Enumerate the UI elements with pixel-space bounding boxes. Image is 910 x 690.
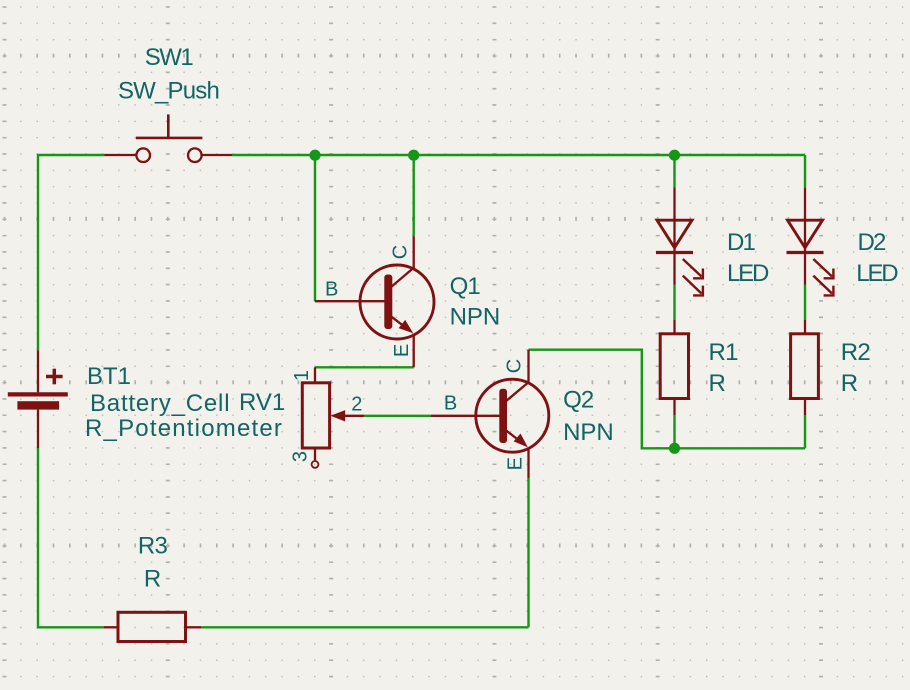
svg-text:BT1: BT1 bbox=[87, 363, 131, 390]
svg-text:SW_Push: SW_Push bbox=[118, 78, 219, 105]
svg-text:LED: LED bbox=[856, 260, 898, 287]
svg-text:E: E bbox=[391, 344, 413, 357]
svg-text:1: 1 bbox=[291, 370, 313, 381]
svg-text:NPN: NPN bbox=[450, 304, 501, 331]
svg-text:SW1: SW1 bbox=[145, 44, 194, 71]
svg-text:NPN: NPN bbox=[563, 419, 614, 446]
svg-text:Battery_Cell: Battery_Cell bbox=[90, 390, 230, 417]
svg-text:E: E bbox=[505, 457, 527, 470]
svg-text:D2: D2 bbox=[858, 229, 887, 256]
svg-text:3: 3 bbox=[290, 451, 312, 462]
svg-text:Q1: Q1 bbox=[450, 273, 481, 300]
svg-text:R3: R3 bbox=[138, 533, 168, 560]
svg-text:R_Potentiometer: R_Potentiometer bbox=[85, 415, 283, 442]
svg-text:R1: R1 bbox=[709, 339, 739, 366]
svg-text:B: B bbox=[325, 278, 338, 300]
svg-text:LED: LED bbox=[727, 260, 769, 287]
svg-text:D1: D1 bbox=[727, 229, 756, 256]
svg-text:C: C bbox=[390, 245, 412, 259]
svg-text:R2: R2 bbox=[841, 339, 871, 366]
svg-text:RV1: RV1 bbox=[239, 389, 285, 416]
svg-text:C: C bbox=[504, 359, 526, 373]
svg-text:R: R bbox=[709, 370, 726, 397]
svg-text:Q2: Q2 bbox=[563, 387, 594, 414]
svg-text:2: 2 bbox=[351, 394, 362, 416]
svg-text:R: R bbox=[144, 566, 161, 593]
svg-text:R: R bbox=[841, 370, 858, 397]
svg-text:B: B bbox=[444, 392, 457, 414]
